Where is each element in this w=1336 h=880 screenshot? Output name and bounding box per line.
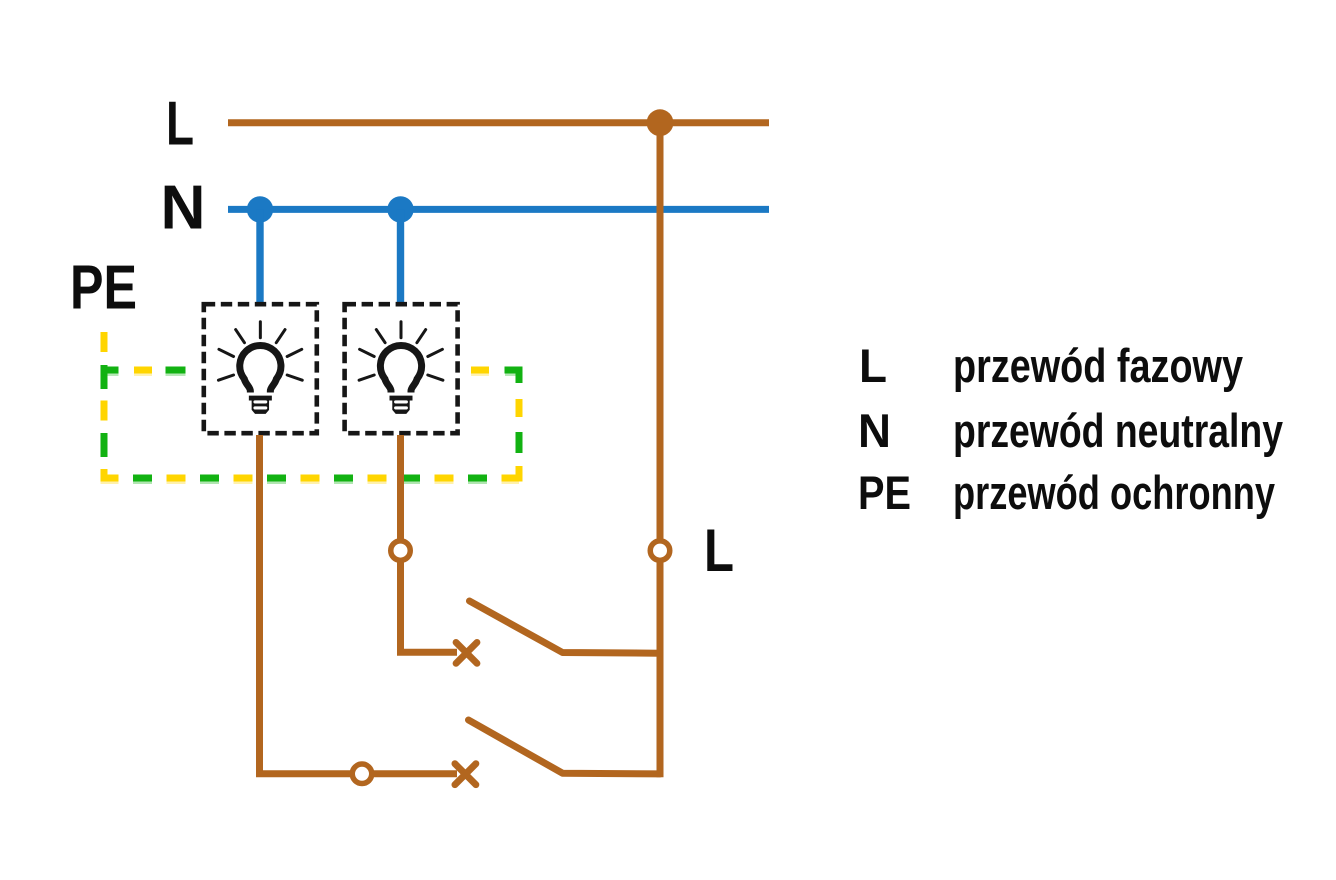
wire: lamp E1 return down and across to switch S2 contact (brown) [260,435,458,774]
svg-text:N: N [858,404,891,457]
lamp E1 enclosure (black dashed box) [204,304,317,433]
svg-text:przewód fazowy: przewód fazowy [953,339,1243,392]
svg-text:przewód ochronny: przewód ochronny [953,466,1275,519]
junction dot N1 (blue) [247,196,273,222]
PE conductor: bottom run (green/yellow dashed, with light shadow) [101,478,520,481]
terminal circle on lamp E1 bottom wire [352,764,372,784]
wire: neutral drop to lamp E2 (blue vertical) [397,209,404,302]
wire L: phase bus (brown horizontal) [228,119,769,126]
switch S2 fixed contact x [455,764,476,785]
wire: neutral drop to lamp E1 (blue vertical) [256,209,263,302]
switch S1 blade and output to phase drop (brown) [470,601,661,653]
lamp E2 enclosure (black dashed box) [345,304,458,433]
svg-text:L: L [859,339,887,392]
lamp E1 bulb icon [218,322,302,414]
PE conductor: left vertical (green/yellow dashed) [101,332,108,482]
terminal circle on phase drop (next to label L) [650,541,670,561]
wire: lamp E2 return down to switch S1 contact (brown) [401,435,458,652]
terminal circle on lamp E2 wire [391,541,411,561]
svg-text:przewód neutralny: przewód neutralny [953,404,1283,457]
PE conductor: right side from lamp E2 down (green/yellow dashed) [459,370,519,482]
svg-text:L: L [704,517,734,584]
wire N: neutral bus (blue horizontal) [228,206,769,213]
svg-text:L: L [166,90,194,159]
svg-text:N: N [161,174,206,243]
wire: phase drop from L junction down the right side (brown vertical) [657,123,664,778]
switch S1 fixed contact x [456,642,477,663]
PE conductor: top-left branch to lamp E1 (green/yellow dashed) [101,370,201,373]
junction dot N2 (blue) [387,196,413,222]
switch S2 blade and output (brown) [469,720,661,774]
svg-text:PE: PE [858,466,911,519]
svg-text:PE: PE [70,254,137,323]
lamp E2 bulb icon [359,322,443,414]
junction dot on L bus (brown) [647,109,674,136]
